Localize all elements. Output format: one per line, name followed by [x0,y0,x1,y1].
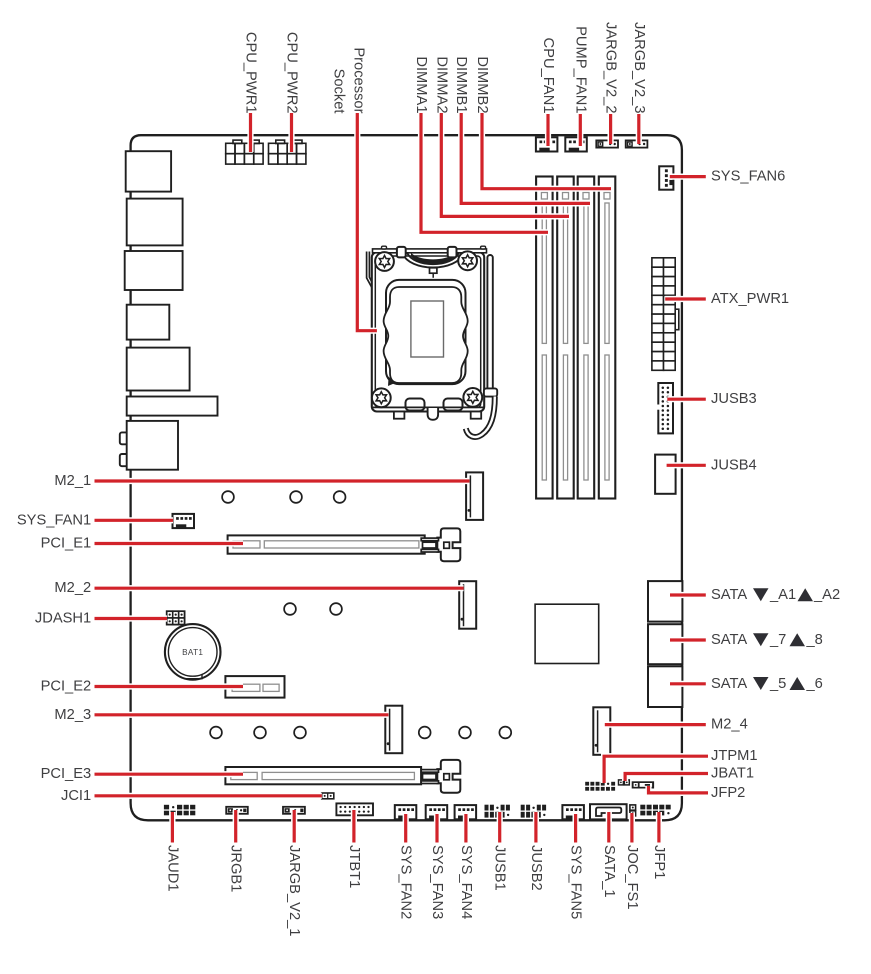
label SATA _A1 _A2 [711,587,840,603]
leader line ATX_PWR1 [665,296,706,302]
IO port block 4 [127,305,170,340]
svg-text:PCI_E3: PCI_E3 [41,766,92,782]
DIMM slot 2 [557,177,574,499]
leader line JFP2 [649,786,709,793]
label JTBT1 [346,845,362,888]
svg-text:_6: _6 [806,676,823,692]
connector JUSB2 [521,805,546,818]
leader line JCI1 [95,793,322,799]
label JARGB_V2_3 [631,22,647,113]
label M2_4 [711,717,748,733]
IO port block 1 [126,151,171,191]
battery BAT1 [165,624,221,680]
svg-text:M2_2: M2_2 [54,580,91,596]
svg-text:JARGB_V2_3: JARGB_V2_3 [631,22,647,113]
leader line JUSB4 [667,462,706,468]
connector SYS_FAN3 [426,805,448,819]
svg-text:Processor: Processor [350,47,366,113]
svg-text:SYS_FAN2: SYS_FAN2 [398,845,414,919]
connector JDASH1 [167,611,185,624]
leader line JFP1 [656,812,662,843]
svg-text:SYS_FAN1: SYS_FAN1 [17,512,91,528]
svg-text:DIMMA2: DIMMA2 [433,56,449,113]
svg-text:ATX_PWR1: ATX_PWR1 [711,291,789,307]
leader line SYS_FAN5 [572,814,578,843]
IO port block 2 [127,199,183,246]
label JOC_FS1 [624,845,640,910]
svg-text:SATA: SATA [711,587,747,603]
label JARGB_V2_2 [603,22,619,113]
svg-text:SATA_1: SATA_1 [601,845,617,898]
leader line JOC_FS1 [629,813,635,843]
leader line SATA_1 [606,812,612,843]
svg-text:_8: _8 [806,632,823,648]
svg-text:DIMMB2: DIMMB2 [474,56,490,113]
label M2_1 [54,473,91,489]
connector JRGB1 [226,807,248,814]
connector JCI1 [322,793,334,799]
SATA connectors 7 8 [648,624,682,664]
label JRGB1 [228,845,244,892]
svg-text:JBAT1: JBAT1 [711,765,754,781]
leader line JUSB1 [497,812,503,843]
connector JTBT1 [336,803,373,815]
label SATA_1 [601,845,617,898]
label DIMMB1 [453,56,469,113]
SATA connectors 5 6 [648,666,682,707]
PCIe slot PCI_E2 [225,676,284,698]
label Processor Socket [330,47,366,114]
svg-text:JDASH1: JDASH1 [35,610,91,626]
svg-text:PUMP_FAN1: PUMP_FAN1 [572,26,588,113]
svg-text:JARGB_V2_2: JARGB_V2_2 [603,22,619,113]
svg-text:JRGB1: JRGB1 [228,845,244,892]
svg-text:M2_1: M2_1 [54,473,91,489]
svg-text:JTBT1: JTBT1 [346,845,362,888]
svg-text:JUSB2: JUSB2 [528,845,544,891]
svg-text:SATA: SATA [711,632,747,648]
connector PUMP_FAN1 [565,137,587,151]
svg-text:CPU_PWR2: CPU_PWR2 [283,32,299,114]
svg-text:_7: _7 [769,632,786,648]
connector JFP1 [640,805,670,816]
label JBAT1 [711,765,754,781]
motherboard outline [131,135,682,820]
svg-text:JUSB4: JUSB4 [711,457,757,473]
svg-text:JUSB3: JUSB3 [711,391,757,407]
svg-text:_5: _5 [769,676,786,692]
connector CPU_PWR2 [269,140,306,164]
leader line PCI_E3 [95,771,244,777]
connector M2_1 [466,472,483,520]
svg-text:DIMMA1: DIMMA1 [413,56,429,113]
leader line M2_3 [95,712,389,718]
label SATA _5 _6 [711,676,823,692]
label PCI_E2 [41,678,92,694]
PCI_E3 latch [421,760,460,793]
IO port block 5 [127,348,190,391]
leader line SATA_A1_A2 [670,592,706,598]
connector JARGB_V2_3 [626,140,648,147]
connector SYS_FAN2 [395,805,417,819]
leader line SYS_FAN1 [95,517,174,523]
label DIMMA2 [433,56,449,113]
svg-text:SATA: SATA [711,676,747,692]
PCI_E1 latch [421,528,460,561]
label ATX_PWR1 [711,291,789,307]
DIMM slot 1 [536,177,553,499]
connector JTPM1 [585,782,615,791]
label SYS_FAN4 [458,845,474,919]
connector JARGB_V2_2 [596,140,618,147]
svg-text:JUSB1: JUSB1 [492,845,508,891]
svg-text:M2_4: M2_4 [711,717,748,733]
svg-text:CPU_PWR1: CPU_PWR1 [242,32,258,114]
leader line JBAT1 [625,774,708,782]
connector JBAT1 [619,780,630,785]
svg-text:JCI1: JCI1 [61,788,91,804]
label JUSB2 [528,845,544,891]
svg-text:_A1: _A1 [769,587,796,603]
leader line DIMMB1 [461,113,590,203]
leader line CPU_PWR1 [247,113,253,152]
label JUSB3 [711,391,757,407]
leader line M2_2 [95,585,464,591]
IO port block 3 [125,251,183,290]
svg-text:_A2: _A2 [813,587,840,603]
connector SATA_1 [590,804,627,819]
CPU processor socket LGA [367,246,498,437]
label JFP1 [651,845,667,879]
label JFP2 [711,785,745,801]
label PCI_E1 [41,535,92,551]
leader line SYS_FAN2 [403,814,409,843]
connector SYS_FAN4 [455,805,477,819]
svg-text:CPU_FAN1: CPU_FAN1 [540,38,556,114]
leader line JTPM1 [604,756,708,783]
label DIMMA1 [413,56,429,113]
svg-text:SYS_FAN5: SYS_FAN5 [568,845,584,919]
label SYS_FAN2 [398,845,414,919]
connector JAUD1 [164,805,195,816]
leader line Processor Socket [357,113,377,331]
connector JUSB1 [485,805,510,818]
label JDASH1 [35,610,91,626]
leader line M2_1 [95,478,470,484]
svg-text:BAT1: BAT1 [182,648,203,657]
label PCI_E3 [41,766,92,782]
leader line PUMP_FAN1 [577,114,583,146]
svg-text:DIMMB1: DIMMB1 [453,56,469,113]
leader line JARGB_V2_2 [607,114,613,144]
IO port block 6 [127,397,218,416]
svg-text:SYS_FAN4: SYS_FAN4 [458,845,474,919]
DIMM slot 3 [578,177,595,499]
connector SYS_FAN1 [173,514,195,528]
label SYS_FAN3 [429,845,445,919]
leader line JUSB3 [667,396,706,402]
leader line SYS_FAN3 [434,814,440,843]
connector JARGB_V2_1 [283,807,305,814]
leader line SYS_FAN6 [670,174,706,180]
svg-text:JAUD1: JAUD1 [164,845,180,892]
label PUMP_FAN1 [572,26,588,113]
svg-text:PCI_E2: PCI_E2 [41,678,92,694]
connector JFP2 [632,781,654,788]
label JTPM1 [711,748,758,764]
connector M2_2 [459,581,476,629]
connector JOC_FS1 [630,805,636,816]
leader line DIMMA1 [421,113,548,232]
svg-text:JFP1: JFP1 [651,845,667,879]
PCIe slot PCI_E3 [225,767,421,784]
svg-text:Socket: Socket [330,69,346,115]
connector CPU_FAN1 [536,137,558,151]
connector M2_4 [593,707,610,755]
leader line SYS_FAN4 [463,814,469,843]
leader line PCI_E2 [95,683,244,689]
label SATA _7 _8 [711,632,823,648]
svg-text:JFP2: JFP2 [711,785,745,801]
label SYS_FAN6 [711,169,785,185]
leader line JRGB1 [233,810,239,843]
connector ATX_PWR1 [652,258,679,371]
SATA connectors A1 A2 [648,581,682,622]
leader line JUSB2 [533,812,539,843]
svg-text:SYS_FAN3: SYS_FAN3 [429,845,445,919]
svg-text:JOC_FS1: JOC_FS1 [624,845,640,910]
svg-text:JTPM1: JTPM1 [711,748,758,764]
label DIMMB2 [474,56,490,113]
mounting holes [210,491,511,738]
svg-text:PCI_E1: PCI_E1 [41,535,92,551]
label M2_2 [54,580,91,596]
connector JUSB4 [655,455,676,494]
label M2_3 [54,707,91,723]
label JARGB_V2_1 [286,845,302,936]
connector CPU_PWR1 [226,140,263,164]
leader line JARGB_V2_1 [291,810,297,843]
label JAUD1 [164,845,180,892]
svg-text:SYS_FAN6: SYS_FAN6 [711,169,785,185]
label SYS_FAN5 [568,845,584,919]
leader line SATA_7_8 [670,637,706,643]
connector SYS_FAN5 [562,805,584,819]
label CPU_PWR1 [242,32,258,114]
svg-text:JARGB_V2_1: JARGB_V2_1 [286,845,302,936]
leader line JDASH1 [95,615,168,621]
label SYS_FAN1 [17,512,91,528]
connector M2_3 [385,706,402,754]
leader line SATA_5_6 [670,681,706,687]
label JUSB4 [711,457,757,473]
PCIe slot PCI_E1 [228,535,425,553]
leader line JTBT1 [351,810,357,843]
label JCI1 [61,788,91,804]
label CPU_FAN1 [540,38,556,114]
leader line PCI_E1 [95,540,244,546]
leader line CPU_PWR2 [288,113,294,152]
chipset block [535,604,599,663]
leader line M2_4 [605,721,706,727]
connector JUSB3 [657,383,674,433]
label CPU_PWR2 [283,32,299,114]
leader line CPU_FAN1 [545,114,551,146]
leader line DIMMA2 [441,113,569,216]
svg-text:M2_3: M2_3 [54,707,91,723]
DIMM slot 4 [599,177,616,499]
connector SYS_FAN6 [659,166,673,189]
IO audio block with jacks [120,421,178,470]
leader line JARGB_V2_3 [636,114,642,144]
leader line JAUD1 [169,812,175,843]
leader line DIMMB2 [482,113,611,189]
label JUSB1 [492,845,508,891]
